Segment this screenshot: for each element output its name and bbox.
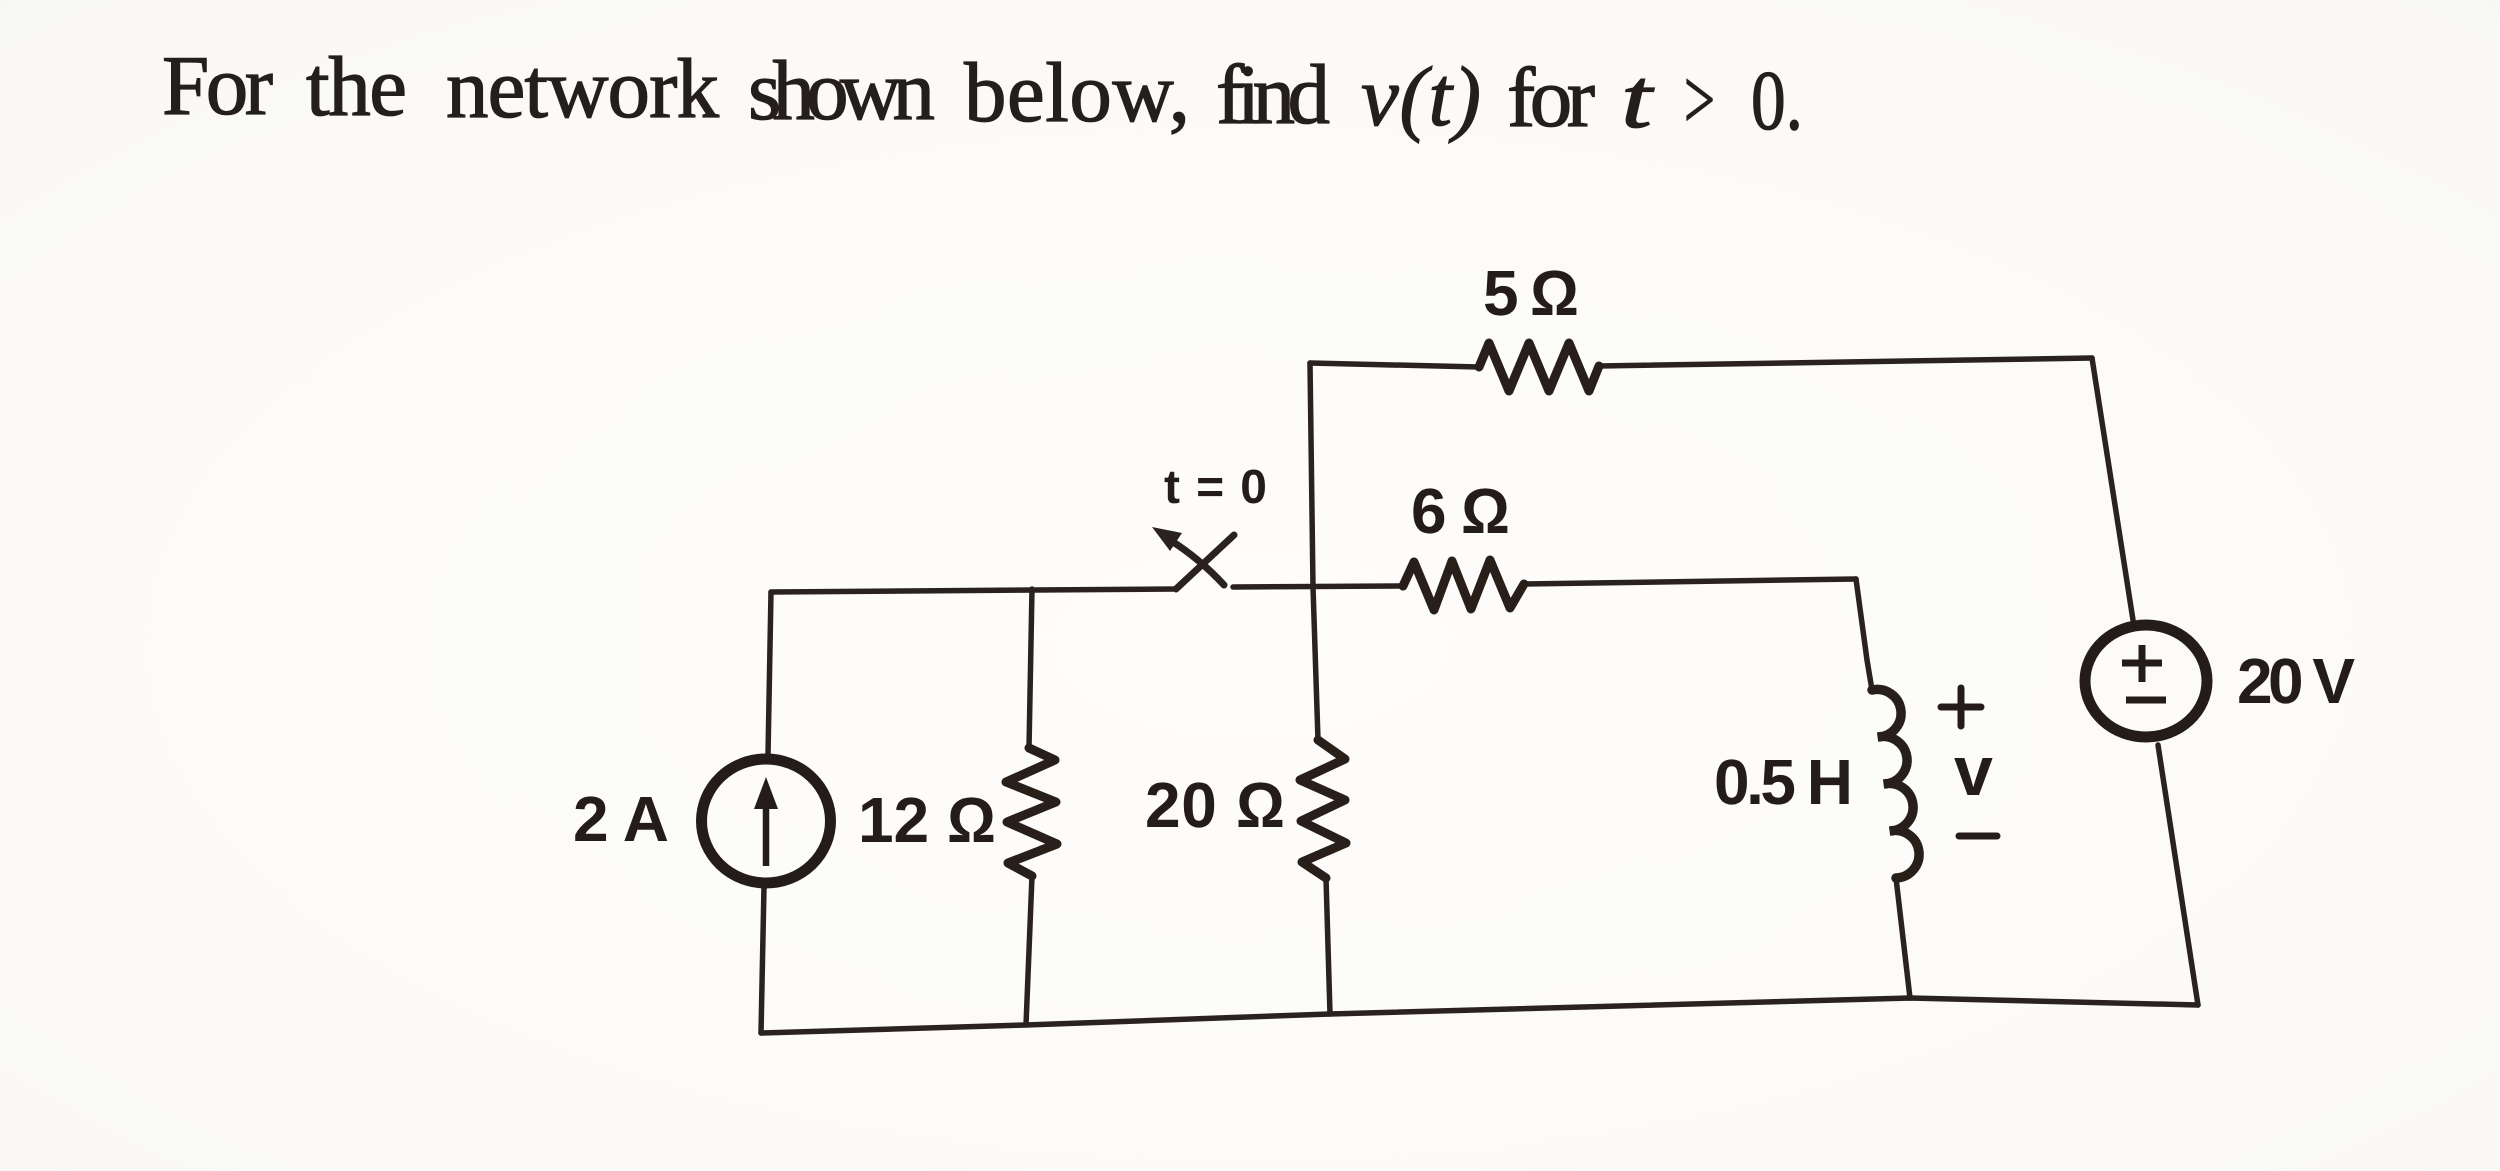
svg-text:t: t <box>1621 52 1655 146</box>
svg-text:v: v <box>1954 732 1993 810</box>
svg-text:20 V: 20 V <box>2237 645 2355 717</box>
svg-text:6 Ω: 6 Ω <box>1411 475 1510 547</box>
svg-text:t = 0: t = 0 <box>1164 461 1267 514</box>
svg-text:below,: below, <box>964 46 1190 140</box>
svg-text:20 Ω: 20 Ω <box>1145 769 1285 841</box>
svg-text:v(t): v(t) <box>1361 50 1481 144</box>
svg-text:2 A: 2 A <box>573 783 669 855</box>
svg-text:>: > <box>1684 53 1715 147</box>
svg-text:5 Ω: 5 Ω <box>1483 257 1579 329</box>
svg-text:12 Ω: 12 Ω <box>858 784 996 856</box>
svg-text:shown: shown <box>748 44 935 138</box>
svg-text:find: find <box>1216 48 1330 142</box>
svg-text:0.: 0. <box>1751 54 1803 148</box>
svg-text:the: the <box>306 40 407 134</box>
svg-text:network: network <box>446 42 720 136</box>
svg-text:for: for <box>1507 51 1595 145</box>
svg-text:For: For <box>162 39 273 133</box>
svg-text:0.5 H: 0.5 H <box>1714 746 1853 818</box>
